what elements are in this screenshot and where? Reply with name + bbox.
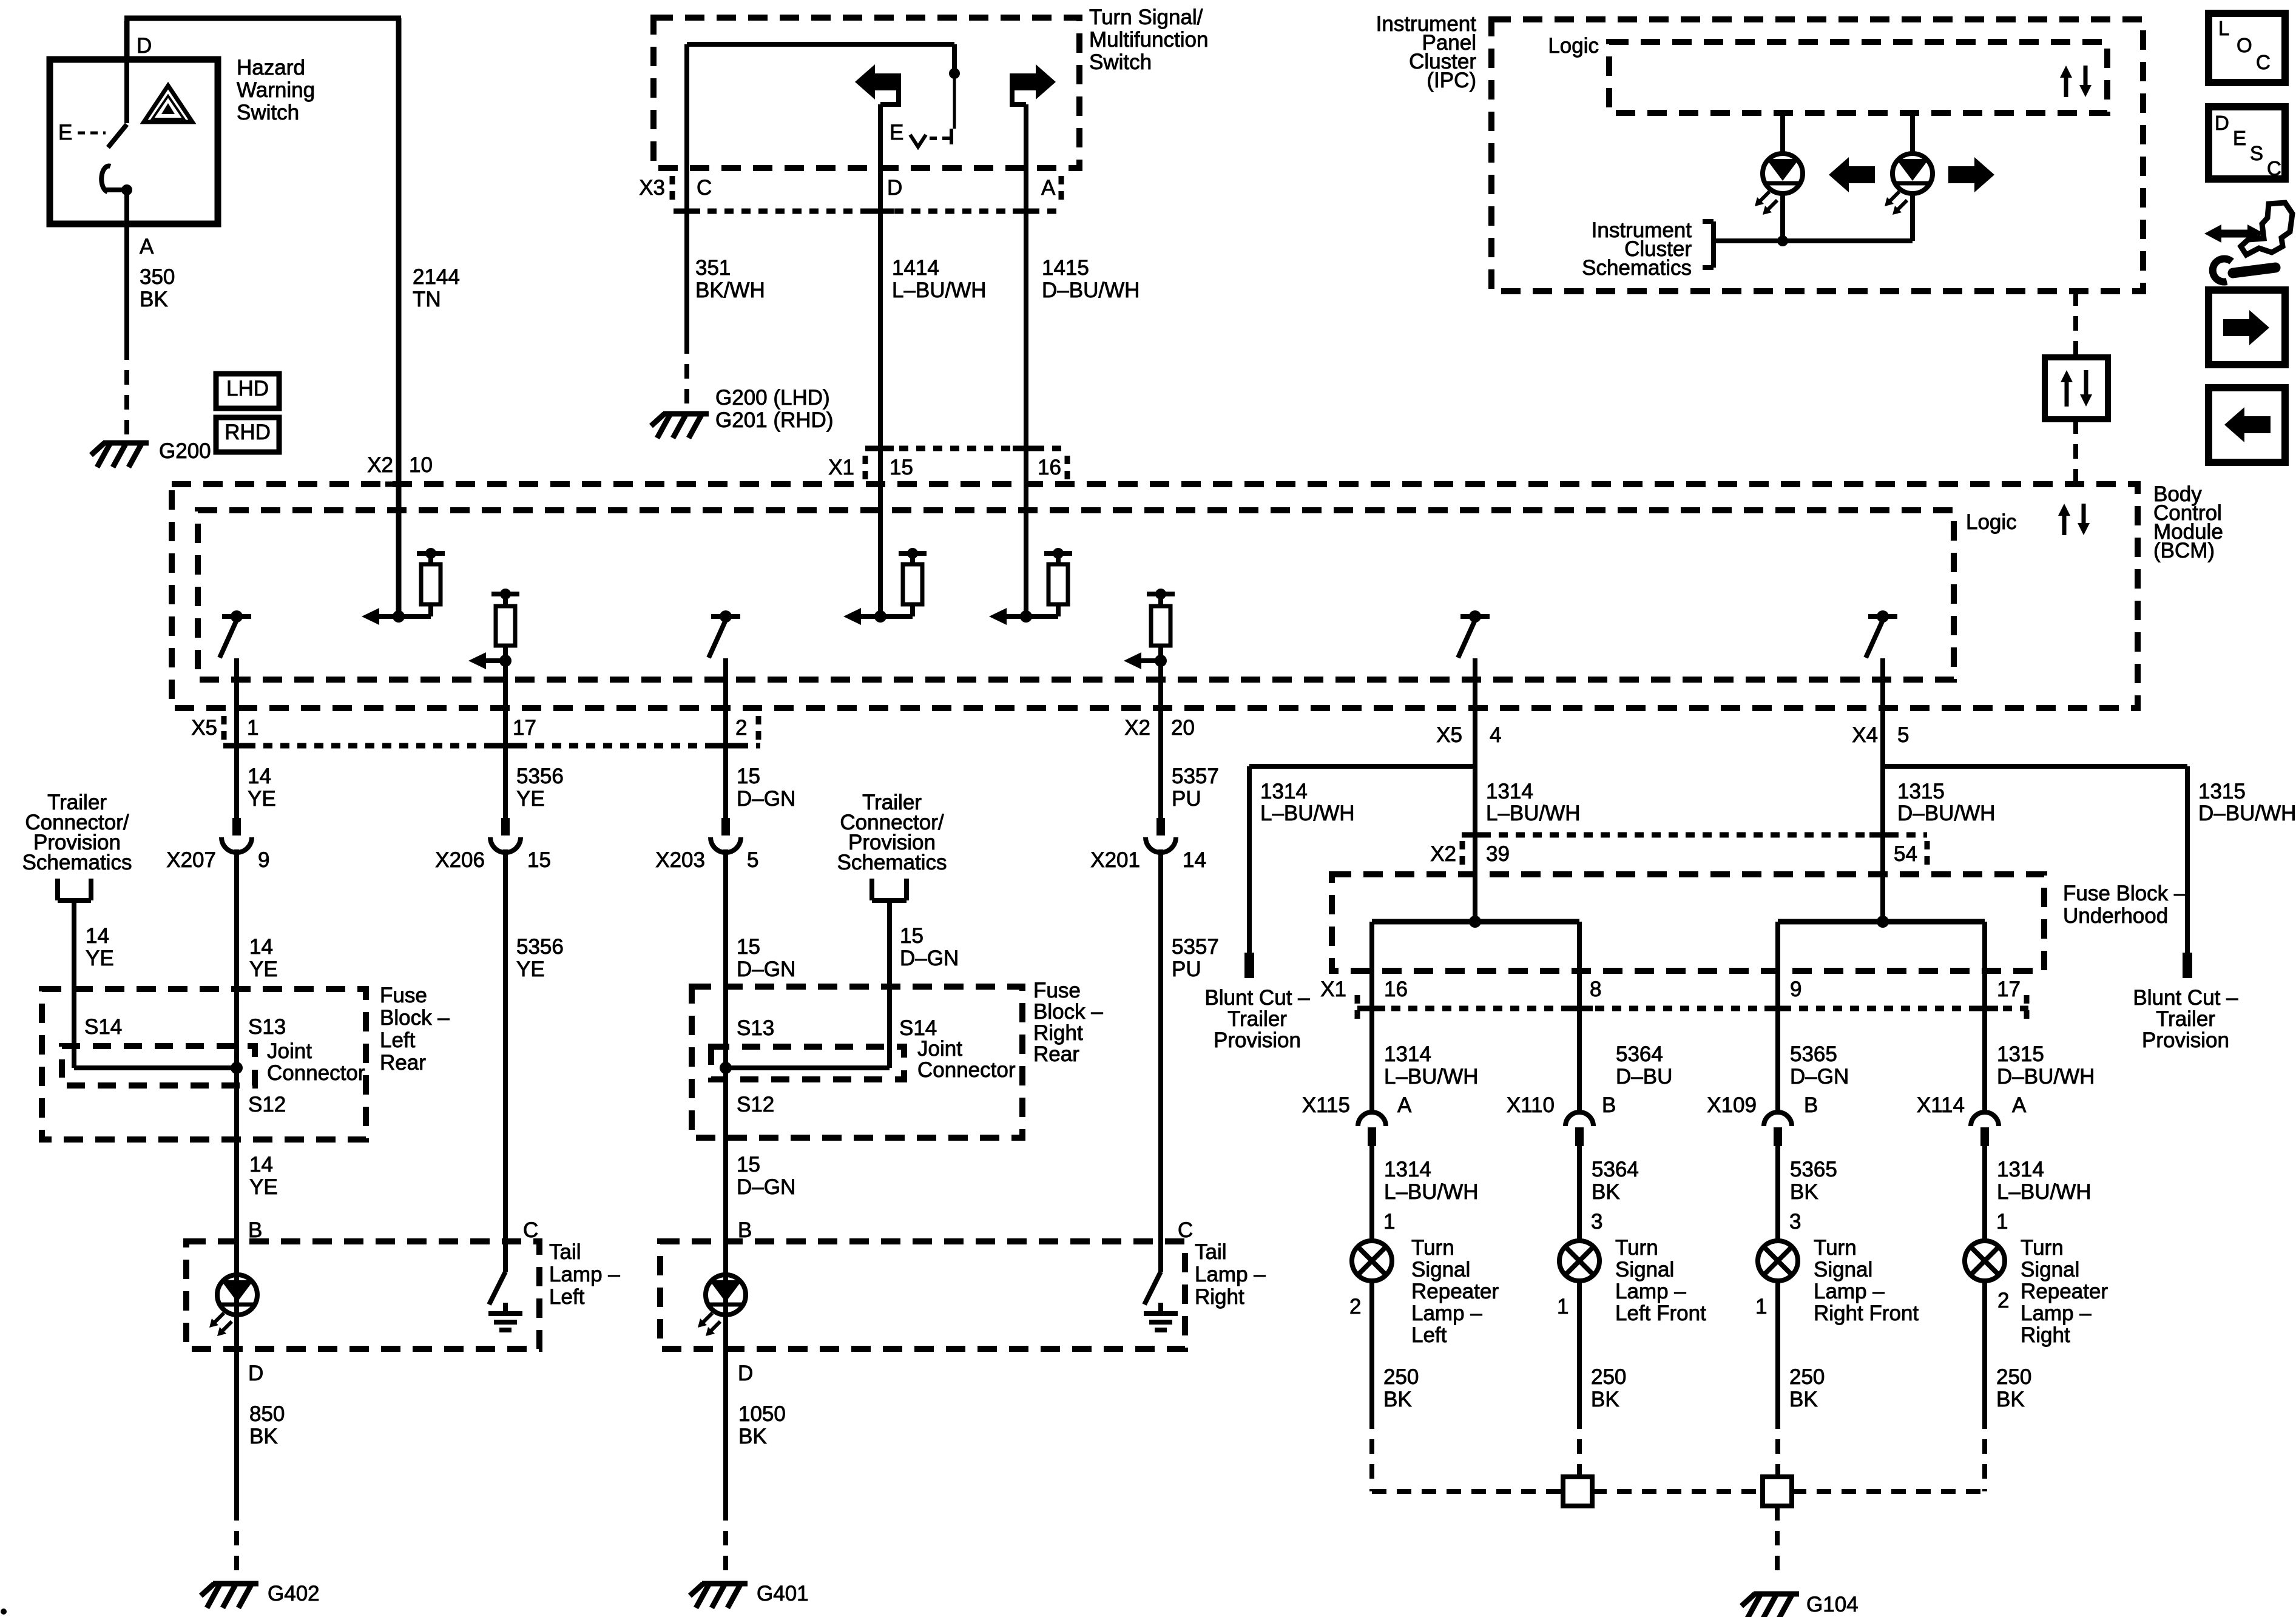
svg-text:1050: 1050 — [738, 1402, 786, 1426]
svg-text:D–GN: D–GN — [737, 957, 795, 981]
svg-text:5356: 5356 — [516, 765, 564, 788]
svg-text:250: 250 — [1996, 1365, 2031, 1389]
svg-text:X2: X2 — [1430, 842, 1456, 866]
svg-text:5364: 5364 — [1592, 1158, 1639, 1181]
svg-text:9: 9 — [258, 848, 269, 872]
svg-text:351: 351 — [695, 256, 731, 280]
svg-text:16: 16 — [1038, 456, 1061, 479]
svg-text:C: C — [2256, 51, 2271, 73]
svg-text:Connector: Connector — [917, 1058, 1016, 1082]
svg-text:BK: BK — [1592, 1180, 1620, 1204]
svg-text:Underhood: Underhood — [2063, 904, 2168, 928]
svg-text:X3: X3 — [639, 176, 665, 200]
svg-text:8: 8 — [1590, 977, 1601, 1001]
svg-text:15: 15 — [890, 456, 913, 479]
svg-text:Fuse: Fuse — [380, 984, 427, 1007]
svg-text:BK: BK — [249, 1425, 278, 1448]
svg-text:Turn Signal/: Turn Signal/ — [1089, 5, 1203, 29]
svg-text:D: D — [738, 1362, 753, 1385]
svg-text:A: A — [1041, 176, 1056, 200]
svg-text:Switch: Switch — [237, 101, 299, 124]
svg-text:5364: 5364 — [1616, 1042, 1663, 1066]
svg-text:D–GN: D–GN — [737, 787, 795, 811]
svg-text:G200 (LHD): G200 (LHD) — [715, 386, 830, 410]
svg-text:X206: X206 — [435, 848, 485, 872]
svg-text:D: D — [248, 1362, 263, 1385]
svg-text:Logic: Logic — [1548, 34, 1599, 58]
svg-text:G200: G200 — [159, 439, 211, 463]
svg-text:1314: 1314 — [1486, 780, 1533, 803]
svg-text:1314: 1314 — [1384, 1158, 1431, 1181]
svg-text:15: 15 — [900, 924, 923, 948]
svg-text:14: 14 — [248, 765, 271, 788]
svg-text:C: C — [2267, 157, 2281, 180]
svg-text:E: E — [58, 121, 72, 144]
svg-text:B: B — [1602, 1093, 1616, 1117]
svg-text:20: 20 — [1171, 716, 1195, 740]
svg-text:(BCM): (BCM) — [2153, 539, 2215, 562]
svg-text:D–BU/WH: D–BU/WH — [1997, 1065, 2095, 1089]
svg-text:Blunt Cut –: Blunt Cut – — [1204, 986, 1310, 1010]
svg-text:Switch: Switch — [1089, 50, 1152, 74]
svg-text:Joint: Joint — [267, 1039, 312, 1063]
svg-text:D–BU/WH: D–BU/WH — [1042, 279, 1140, 302]
svg-text:1414: 1414 — [892, 256, 939, 280]
svg-text:14: 14 — [249, 1153, 273, 1176]
svg-text:Lamp –: Lamp – — [1411, 1301, 1482, 1325]
svg-text:C: C — [697, 176, 712, 200]
svg-text:X4: X4 — [1852, 723, 1878, 747]
svg-text:L–BU/WH: L–BU/WH — [1384, 1180, 1479, 1204]
svg-text:A: A — [140, 235, 154, 258]
svg-text:Lamp –: Lamp – — [1814, 1280, 1885, 1303]
svg-text:X114: X114 — [1917, 1093, 1965, 1117]
svg-text:5356: 5356 — [516, 935, 564, 959]
svg-text:250: 250 — [1383, 1365, 1419, 1389]
svg-text:Lamp –: Lamp – — [1615, 1280, 1686, 1303]
svg-text:YE: YE — [249, 1175, 278, 1199]
svg-text:YE: YE — [516, 787, 545, 811]
svg-text:L–BU/WH: L–BU/WH — [1486, 802, 1581, 825]
svg-text:X1: X1 — [1320, 977, 1346, 1001]
svg-text:G201 (RHD): G201 (RHD) — [715, 408, 833, 432]
svg-text:YE: YE — [248, 787, 276, 811]
svg-text:X5: X5 — [1436, 723, 1462, 747]
svg-text:O: O — [2237, 34, 2252, 56]
svg-text:S14: S14 — [84, 1015, 122, 1039]
svg-text:BK: BK — [1996, 1388, 2025, 1411]
svg-text:BK: BK — [1790, 1180, 1818, 1204]
svg-text:250: 250 — [1789, 1365, 1825, 1389]
svg-text:5: 5 — [1897, 723, 1909, 747]
svg-text:Lamp –: Lamp – — [2021, 1301, 2092, 1325]
svg-text:Signal: Signal — [1411, 1258, 1470, 1281]
svg-text:BK: BK — [140, 288, 168, 311]
svg-text:X5: X5 — [191, 716, 217, 740]
svg-text:BK: BK — [1383, 1388, 1412, 1411]
svg-text:1: 1 — [1557, 1295, 1568, 1318]
svg-text:D–BU/WH: D–BU/WH — [2198, 802, 2296, 825]
svg-text:Left: Left — [380, 1028, 416, 1052]
svg-text:14: 14 — [1183, 848, 1206, 872]
svg-text:Schematics: Schematics — [837, 851, 947, 874]
svg-text:39: 39 — [1486, 842, 1510, 866]
svg-text:X207: X207 — [166, 848, 216, 872]
svg-text:1314: 1314 — [1997, 1158, 2044, 1181]
svg-text:1315: 1315 — [1897, 780, 1945, 803]
svg-text:1: 1 — [1755, 1295, 1767, 1318]
svg-text:15: 15 — [737, 1153, 760, 1176]
svg-text:PU: PU — [1172, 957, 1201, 981]
svg-text:10: 10 — [409, 453, 433, 477]
svg-text:1315: 1315 — [2198, 780, 2246, 803]
svg-text:X2: X2 — [1124, 716, 1150, 740]
svg-text:Connector: Connector — [267, 1061, 365, 1085]
svg-text:850: 850 — [249, 1402, 285, 1426]
svg-text:1314: 1314 — [1384, 1042, 1431, 1066]
svg-text:BK: BK — [738, 1425, 767, 1448]
svg-text:1: 1 — [1996, 1210, 2008, 1234]
svg-text:Logic: Logic — [1966, 510, 2017, 534]
svg-text:LHD: LHD — [226, 377, 269, 400]
svg-text:1415: 1415 — [1042, 256, 1089, 280]
svg-text:E: E — [2233, 127, 2246, 149]
svg-text:17: 17 — [513, 716, 536, 740]
svg-text:YE: YE — [249, 957, 278, 981]
svg-text:Trailer: Trailer — [1227, 1007, 1287, 1031]
svg-text:BK: BK — [1591, 1388, 1619, 1411]
svg-text:G104: G104 — [1806, 1593, 1859, 1616]
svg-text:Warning: Warning — [237, 78, 315, 102]
svg-text:9: 9 — [1790, 977, 1801, 1001]
svg-text:B: B — [1804, 1093, 1818, 1117]
svg-text:D: D — [887, 176, 902, 200]
svg-text:G401: G401 — [757, 1582, 809, 1605]
svg-text:YE: YE — [86, 947, 114, 970]
svg-text:Left Front: Left Front — [1615, 1301, 1706, 1325]
svg-text:Provision: Provision — [2142, 1028, 2229, 1052]
svg-text:D: D — [137, 34, 152, 58]
svg-text:16: 16 — [1384, 977, 1408, 1001]
svg-text:BK: BK — [1789, 1388, 1818, 1411]
svg-text:3: 3 — [1591, 1210, 1602, 1234]
svg-text:4: 4 — [1490, 723, 1501, 747]
svg-text:E: E — [890, 121, 903, 144]
svg-text:Turn: Turn — [1615, 1236, 1658, 1260]
svg-text:1314: 1314 — [1260, 780, 1308, 803]
svg-text:2: 2 — [1997, 1289, 2009, 1312]
svg-text:S12: S12 — [737, 1093, 774, 1116]
svg-text:Repeater: Repeater — [2021, 1280, 2108, 1303]
svg-text:2144: 2144 — [413, 265, 460, 289]
svg-text:2: 2 — [735, 716, 747, 740]
svg-text:1: 1 — [247, 716, 258, 740]
svg-text:S13: S13 — [248, 1015, 286, 1039]
svg-text:Tail: Tail — [1195, 1240, 1227, 1264]
svg-text:D: D — [2215, 112, 2229, 134]
svg-text:Repeater: Repeater — [1411, 1280, 1499, 1303]
svg-text:17: 17 — [1997, 977, 2021, 1001]
svg-text:X203: X203 — [655, 848, 705, 872]
svg-text:L–BU/WH: L–BU/WH — [892, 279, 987, 302]
svg-text:X109: X109 — [1707, 1093, 1757, 1117]
svg-text:Block –: Block – — [1033, 1000, 1103, 1024]
svg-text:5365: 5365 — [1790, 1158, 1837, 1181]
svg-text:Schematics: Schematics — [1582, 256, 1692, 280]
svg-text:350: 350 — [140, 265, 175, 289]
svg-text:3: 3 — [1789, 1210, 1801, 1234]
svg-text:Blunt Cut –: Blunt Cut – — [2133, 986, 2238, 1010]
svg-text:RHD: RHD — [225, 420, 271, 444]
svg-text:Fuse Block –: Fuse Block – — [2063, 882, 2186, 905]
svg-text:2: 2 — [1349, 1295, 1361, 1318]
svg-text:D–GN: D–GN — [1790, 1065, 1849, 1089]
svg-text:5365: 5365 — [1790, 1042, 1837, 1066]
svg-text:TN: TN — [413, 288, 441, 311]
svg-text:Provision: Provision — [1214, 1028, 1301, 1052]
svg-text:Right Front: Right Front — [1814, 1301, 1919, 1325]
svg-text:Left: Left — [549, 1285, 585, 1309]
svg-text:S12: S12 — [248, 1093, 286, 1116]
svg-text:L–BU/WH: L–BU/WH — [1997, 1180, 2092, 1204]
svg-text:Turn: Turn — [1814, 1236, 1857, 1260]
svg-text:5: 5 — [747, 848, 758, 872]
svg-text:1: 1 — [1383, 1210, 1395, 1234]
svg-text:Right: Right — [1033, 1021, 1083, 1045]
svg-text:Joint: Joint — [917, 1037, 962, 1061]
svg-text:Signal: Signal — [2021, 1258, 2079, 1281]
svg-text:250: 250 — [1591, 1365, 1626, 1389]
svg-text:Left: Left — [1411, 1323, 1447, 1347]
svg-text:S: S — [2250, 142, 2263, 164]
svg-text:Trailer: Trailer — [2156, 1007, 2215, 1031]
svg-text:X201: X201 — [1090, 848, 1140, 872]
svg-text:15: 15 — [527, 848, 551, 872]
svg-text:Turn: Turn — [1411, 1236, 1454, 1260]
svg-text:14: 14 — [249, 935, 273, 959]
svg-text:Turn: Turn — [2021, 1236, 2064, 1260]
svg-text:5357: 5357 — [1172, 935, 1219, 959]
svg-text:Multifunction: Multifunction — [1089, 28, 1208, 52]
svg-text:Lamp –: Lamp – — [549, 1263, 620, 1286]
svg-text:Signal: Signal — [1615, 1258, 1674, 1281]
svg-text:(IPC): (IPC) — [1427, 69, 1476, 92]
svg-text:A: A — [2012, 1093, 2027, 1117]
svg-text:54: 54 — [1894, 842, 1917, 866]
svg-text:Right: Right — [2021, 1323, 2070, 1347]
svg-text:D–GN: D–GN — [737, 1175, 795, 1199]
svg-text:S13: S13 — [737, 1016, 774, 1040]
svg-text:X1: X1 — [828, 456, 854, 479]
svg-text:Fuse: Fuse — [1033, 979, 1081, 1002]
svg-text:D–BU: D–BU — [1616, 1065, 1672, 1089]
svg-text:BK/WH: BK/WH — [695, 279, 765, 302]
svg-text:Rear: Rear — [1033, 1042, 1079, 1066]
svg-text:Hazard: Hazard — [237, 56, 305, 79]
svg-text:A: A — [1397, 1093, 1412, 1117]
svg-text:L–BU/WH: L–BU/WH — [1260, 802, 1355, 825]
svg-text:1315: 1315 — [1997, 1042, 2044, 1066]
svg-text:YE: YE — [516, 957, 545, 981]
svg-text:Signal: Signal — [1814, 1258, 1872, 1281]
svg-text:Block –: Block – — [380, 1006, 450, 1030]
svg-text:Right: Right — [1195, 1285, 1244, 1309]
svg-text:L: L — [2218, 17, 2229, 39]
svg-text:Tail: Tail — [549, 1240, 581, 1264]
svg-text:D–GN: D–GN — [900, 947, 959, 970]
svg-text:D–BU/WH: D–BU/WH — [1897, 802, 1995, 825]
svg-text:Lamp –: Lamp – — [1195, 1263, 1266, 1286]
svg-text:Schematics: Schematics — [22, 851, 132, 874]
svg-text:X110: X110 — [1507, 1093, 1555, 1117]
svg-text:PU: PU — [1172, 787, 1201, 811]
svg-text:15: 15 — [737, 935, 760, 959]
svg-text:14: 14 — [86, 924, 109, 948]
svg-text:Rear: Rear — [380, 1051, 426, 1075]
svg-text:5357: 5357 — [1172, 765, 1219, 788]
svg-text:G402: G402 — [268, 1582, 320, 1605]
svg-text:X2: X2 — [367, 453, 393, 477]
svg-text:15: 15 — [737, 765, 760, 788]
svg-text:L–BU/WH: L–BU/WH — [1384, 1065, 1479, 1089]
svg-text:X115: X115 — [1302, 1093, 1350, 1117]
